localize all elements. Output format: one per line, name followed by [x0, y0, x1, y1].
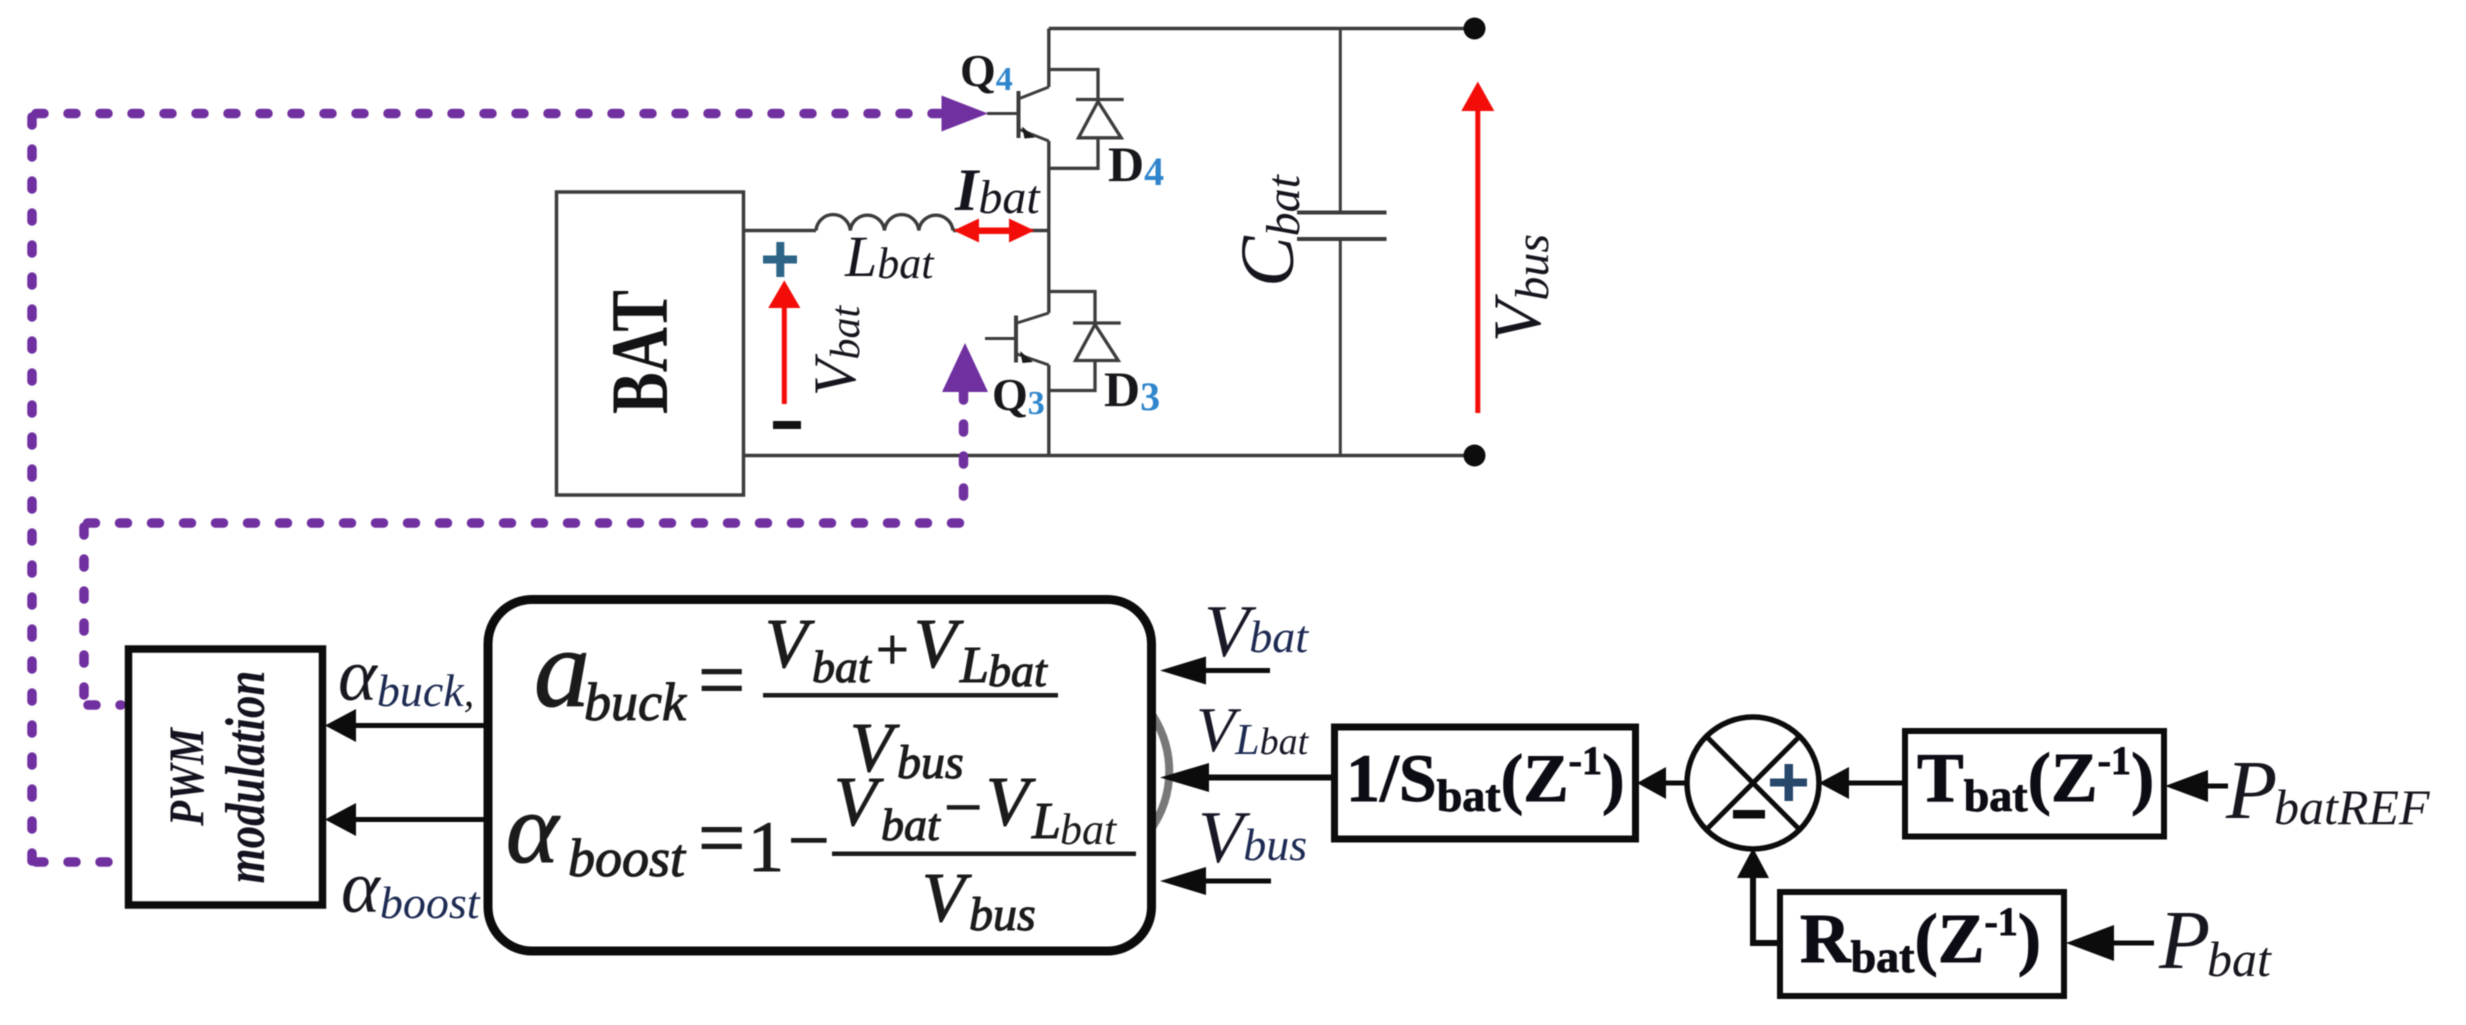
inductor Lbat coil — [816, 215, 953, 231]
svg-text:bat: bat — [812, 641, 872, 692]
svg-text:bus: bus — [969, 888, 1036, 941]
arrow alpha-buck (equation box to PWM) — [325, 709, 488, 742]
arrow summing junction to 1/S block — [1637, 767, 1690, 799]
node bottom-right bus — [1464, 445, 1486, 467]
svg-text:P: P — [2225, 744, 2277, 837]
node top-right bus — [1464, 18, 1486, 40]
svg-text:boost: boost — [568, 828, 687, 888]
svg-text:PWM: PWM — [158, 727, 214, 827]
summing junction — [1687, 717, 1819, 849]
transistor Q4 (IGBT) — [987, 87, 1049, 141]
diode D3 (anti-parallel) — [1049, 292, 1121, 391]
svg-text:=: = — [698, 792, 745, 885]
wire bottom bus rail — [744, 454, 1475, 457]
wire Q4 collector drop from top rail — [1047, 29, 1050, 88]
fraction bar boost — [832, 852, 1136, 857]
svg-text:=: = — [698, 634, 745, 727]
label PWM modulation (rotated) — [158, 671, 277, 884]
svg-text:bat: bat — [881, 799, 941, 850]
svg-text:V: V — [914, 606, 964, 683]
wire top bus rail — [1049, 27, 1475, 30]
svg-text:P: P — [2158, 894, 2210, 987]
wire Rbat feedback to summing junction — [1737, 848, 1780, 946]
wire Q3 emitter to bottom rail — [1047, 365, 1050, 456]
arrow Tbat to summing junction — [1819, 767, 1905, 799]
svg-text:+: + — [876, 617, 909, 682]
wire inductor to midpoint node — [953, 229, 1049, 232]
svg-text:buck: buck — [584, 672, 687, 732]
svg-text:−: − — [788, 800, 830, 882]
wire PWM to Q3 gate (purple dashed) — [84, 392, 964, 705]
block PWM modulation — [129, 649, 323, 905]
svg-text:V: V — [986, 764, 1036, 841]
svg-text:V: V — [765, 606, 815, 683]
wire battery to inductor — [744, 229, 817, 232]
arrow VLbat into equation box (from 1/S block) — [1160, 763, 1336, 792]
gray arc bulge right of equation box — [1149, 710, 1169, 832]
arrow Vbus (red) — [1461, 82, 1494, 414]
svg-text:V: V — [922, 860, 972, 937]
label plus sign — [763, 242, 797, 277]
block Tbat(Z-1) — [1905, 731, 2164, 837]
svg-text:batREF: batREF — [2274, 779, 2430, 835]
svg-text:BAT: BAT — [594, 290, 685, 414]
arrow PbatREF to Tbat — [2165, 770, 2228, 802]
svg-text:−: − — [944, 769, 982, 845]
capacitor Cbat — [1297, 29, 1387, 456]
wire PWM to Q4 gate (purple dashed) — [32, 114, 940, 863]
arrow Vbat (red) — [768, 280, 800, 404]
battery BAT box — [557, 192, 744, 495]
wire midpoint vertical between Q4 emitter and Q3 collector — [1047, 141, 1050, 313]
block 1/Sbat(Z-1) — [1335, 727, 1636, 839]
arrow Vbat into equation box — [1160, 657, 1270, 685]
label plus at summing junction — [1770, 764, 1807, 801]
arrow Pbat to Rbat — [2066, 925, 2154, 961]
svg-text:a: a — [534, 607, 590, 731]
svg-text:modulation: modulation — [215, 671, 277, 884]
svg-text:α: α — [506, 773, 561, 884]
fraction bar buck — [763, 693, 1058, 698]
svg-text:bat: bat — [988, 645, 1048, 696]
label minus sign — [773, 421, 801, 429]
diode D4 (anti-parallel) — [1049, 70, 1124, 169]
block Rbat(Z-1) — [1780, 892, 2064, 996]
svg-text:1: 1 — [748, 807, 784, 887]
arrow Ibat (red double-headed) — [954, 219, 1035, 243]
block equation box (rounded) — [488, 600, 1152, 952]
transistor Q3 (IGBT) — [985, 313, 1049, 365]
svg-text:bat: bat — [2207, 931, 2272, 987]
svg-text:V: V — [834, 764, 884, 841]
svg-text:L: L — [959, 637, 989, 694]
svg-text:bat: bat — [1060, 805, 1118, 854]
svg-text:L: L — [1031, 793, 1061, 850]
arrow Vbus into equation box — [1160, 867, 1271, 895]
arrow head at Q3 gate — [942, 343, 988, 392]
label minus at summing junction — [1733, 810, 1765, 819]
arrow head at Q4 gate — [942, 96, 989, 132]
arrow alpha-boost (equation box to PWM) — [325, 803, 488, 836]
